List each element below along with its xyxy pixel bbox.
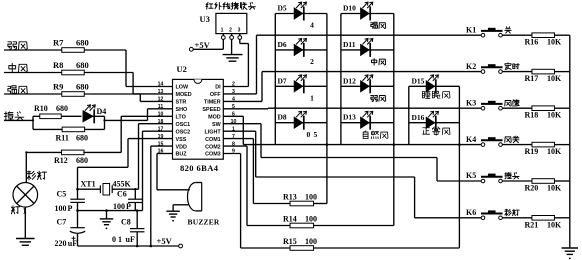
wire R20 to bus [554, 180, 569, 182]
svg-text:K3: K3 [466, 98, 476, 107]
wire +5V to U3 pin1 [193, 39, 223, 49]
wire 强风 input row [4, 93, 140, 95]
svg-text:10K: 10K [547, 147, 562, 156]
wire OFF to K1 row [223, 35, 256, 94]
svg-text:+5V: +5V [157, 236, 173, 246]
svg-text:OFF: OFF [210, 92, 221, 98]
svg-text:D5: D5 [278, 4, 287, 13]
svg-text:680: 680 [76, 60, 89, 70]
LED D16 [412, 111, 439, 129]
svg-text:680: 680 [76, 81, 89, 91]
wire MOD to K4 row [223, 116, 243, 144]
wire LIGHT to K6 [223, 131, 481, 218]
wire column3 row 3 [409, 85, 460, 87]
svg-text:5: 5 [314, 130, 318, 139]
svg-text:220: 220 [55, 239, 67, 248]
switch K3 [466, 98, 503, 110]
svg-text:R13: R13 [283, 193, 297, 202]
svg-text:P: P [126, 202, 131, 211]
svg-text:K1: K1 [466, 25, 476, 34]
svg-text:C5: C5 [57, 189, 67, 198]
wire parallel block left [32, 116, 34, 129]
wire U3 pin2 to ground [231, 39, 233, 54]
LED D4 [83, 105, 106, 123]
wire R7 to pin LOW [126, 50, 173, 87]
IC U3 IR receiver [200, 13, 247, 33]
svg-text:D8: D8 [278, 113, 287, 122]
LED D10 [343, 2, 373, 20]
svg-text:10K: 10K [547, 111, 562, 120]
wire R16 to bus [554, 34, 569, 36]
U2 pin numbers right [231, 82, 237, 155]
svg-text:K5: K5 [466, 171, 476, 180]
ground (right bus) [562, 248, 579, 259]
wire R12 to pin LTO [121, 116, 172, 152]
svg-text:10K: 10K [547, 220, 562, 229]
node mode label 正常风 [423, 127, 450, 135]
U2 pin numbers left [158, 82, 164, 155]
LED D11 [343, 39, 373, 57]
wire OSC2 routing [143, 131, 173, 210]
wire 弱风 input row [4, 49, 126, 51]
wire COM3 to R15 [223, 154, 290, 249]
svg-text:R21: R21 [525, 220, 539, 229]
svg-text:LIGHT: LIGHT [205, 129, 222, 135]
svg-text:820 6BA4: 820 6BA4 [180, 163, 219, 173]
svg-text:R9: R9 [53, 81, 63, 91]
svg-text:R16: R16 [525, 38, 539, 47]
wire K5 to R20 [502, 180, 532, 182]
LED D6 [278, 39, 307, 57]
node 中风 label [9, 63, 27, 72]
svg-text:U2: U2 [177, 64, 187, 74]
wire R9 to pin STR [140, 94, 172, 101]
switch K5 [466, 171, 503, 183]
crystal XT1 [78, 180, 139, 196]
svg-text:2: 2 [310, 57, 314, 66]
svg-text:OSC2: OSC2 [176, 129, 191, 135]
svg-text:SW: SW [212, 122, 222, 128]
svg-text:1: 1 [221, 28, 224, 34]
svg-text:R17: R17 [525, 74, 539, 83]
svg-text:COM1: COM1 [205, 137, 221, 143]
svg-text:LTO: LTO [176, 115, 186, 121]
svg-text:DI: DI [215, 85, 221, 91]
svg-text:4: 4 [310, 21, 314, 30]
node mode label 睡眠风 [422, 91, 450, 99]
wire column2 right rail [393, 14, 395, 145]
wire TIMER to K2 row [223, 72, 262, 102]
node switch label 风速 [505, 100, 519, 106]
svg-text:LOW: LOW [176, 85, 189, 91]
svg-text:680: 680 [76, 37, 89, 47]
LED D13 [343, 111, 373, 129]
node switch label 摇头 [505, 172, 519, 179]
svg-text:D16: D16 [412, 113, 425, 122]
wire buzzer to ground [173, 205, 189, 211]
capacitor C7 [55, 211, 86, 248]
ground (U3) [223, 55, 243, 62]
svg-text:13: 13 [158, 89, 164, 95]
LED D12 [343, 75, 373, 93]
wire 摇头 input row [4, 119, 33, 121]
wire column2 row 4 [341, 122, 394, 124]
svg-text:12: 12 [158, 97, 164, 103]
wire +5V rail [78, 245, 179, 247]
wire column1 left rail [274, 14, 276, 145]
wire column1 row 1 [275, 13, 327, 15]
svg-text:680: 680 [76, 133, 88, 142]
node mode label 强风 [371, 22, 386, 28]
resistor R19 [525, 142, 563, 156]
capacitor C5 [55, 189, 85, 213]
svg-text:K2: K2 [466, 62, 476, 71]
resistor R17 [525, 69, 563, 83]
svg-text:R15: R15 [283, 237, 297, 246]
svg-text:D7: D7 [278, 76, 287, 85]
wire analog ground bus [78, 210, 143, 212]
U3 pin terminals [221, 34, 241, 40]
svg-text:P: P [68, 204, 73, 213]
wire 中风 input row [4, 72, 133, 74]
node switch label 定时 [505, 63, 519, 70]
svg-text:uF: uF [68, 239, 77, 248]
wire K2 to R17 [502, 71, 532, 73]
U2 part number label [180, 163, 219, 173]
buzzer BUZZER [188, 183, 220, 227]
wire K3 to R18 [502, 107, 532, 109]
svg-text:C6: C6 [117, 189, 127, 198]
svg-text:XT1: XT1 [81, 180, 96, 189]
node 彩灯 label [27, 171, 47, 180]
wire column2 row 2 [341, 49, 394, 51]
wire column2 row 1 [341, 13, 394, 15]
wire K4 row bus [243, 144, 481, 146]
wire column3 left rail [408, 86, 410, 144]
svg-text:R18: R18 [525, 111, 539, 120]
svg-text:14: 14 [158, 82, 164, 88]
node timer value 2 [310, 57, 314, 66]
node mode label 弱风 [371, 96, 386, 102]
op-amp U2 remote decoder IC [173, 64, 224, 159]
svg-text:MOED: MOED [176, 92, 192, 98]
switch K4 [466, 135, 503, 147]
svg-text:VSS: VSS [176, 137, 187, 143]
wire K6 to R21 [502, 217, 532, 219]
LED D5 [278, 2, 307, 20]
svg-text:R19: R19 [525, 147, 539, 156]
node 摇头 label [4, 112, 23, 121]
wire parallel block right [91, 116, 104, 129]
wire OSC1 routing [139, 124, 173, 190]
wire 摇头 to pin SHO [105, 109, 173, 121]
svg-text:1: 1 [310, 94, 314, 103]
wire column2 row 3 [341, 85, 394, 87]
svg-text:VDD: VDD [176, 144, 187, 150]
svg-text:680: 680 [56, 104, 68, 113]
resistor R20 [525, 179, 563, 193]
svg-text:D11: D11 [343, 40, 356, 49]
wire R14 to column2 [314, 145, 394, 226]
svg-text:K6: K6 [466, 208, 476, 217]
node 红外线接收头 label [206, 2, 255, 9]
wire R19 to bus [554, 144, 569, 146]
wire R15 to column3 [314, 145, 460, 248]
node timer value 4 [310, 21, 314, 30]
resistor R13 [283, 193, 317, 206]
svg-text:COM3: COM3 [205, 152, 221, 158]
power +5V terminal (U3) [189, 40, 210, 51]
wire R8 to pin MOED [133, 73, 172, 94]
wire column2 left rail [340, 14, 342, 145]
svg-text:SPEED: SPEED [202, 107, 220, 113]
svg-text:D4: D4 [97, 107, 107, 116]
svg-text:100: 100 [305, 193, 317, 202]
svg-text:680: 680 [76, 156, 88, 165]
svg-text:D10: D10 [343, 4, 356, 13]
svg-text:10K: 10K [547, 74, 562, 83]
ground (buzzer) [166, 211, 180, 221]
wire COM1 to R13 [223, 139, 290, 204]
svg-text:0 1: 0 1 [112, 235, 122, 244]
svg-text:COM2: COM2 [205, 144, 221, 150]
svg-text:BUZZER: BUZZER [188, 218, 220, 227]
node switch label 关 [505, 27, 511, 33]
resistor R7 [53, 37, 89, 52]
svg-text:11: 11 [158, 104, 164, 110]
svg-text:10: 10 [158, 112, 164, 118]
LED D7 [278, 75, 307, 93]
wire VSS routing [78, 139, 173, 190]
svg-text:STR: STR [176, 100, 187, 106]
svg-text:455K: 455K [113, 180, 132, 189]
wire column1 row 2 [275, 49, 327, 51]
wire VDD to +5V rail [151, 146, 173, 246]
svg-text:D15: D15 [412, 77, 425, 86]
wire SW to K5 [223, 124, 481, 181]
svg-text:10K: 10K [547, 38, 562, 47]
svg-text:3: 3 [238, 28, 241, 34]
svg-text:BUZ: BUZ [176, 152, 188, 158]
svg-text:OSC1: OSC1 [176, 122, 191, 128]
wire lamp to ground [24, 207, 26, 238]
wire column3 right rail [458, 86, 460, 144]
node switch label 风类 [505, 136, 519, 143]
node 弱风 label [8, 42, 27, 50]
svg-text:2: 2 [229, 28, 232, 34]
resistor R14 [283, 215, 317, 228]
capacitor C6 [113, 188, 143, 211]
svg-text:R7: R7 [53, 37, 64, 47]
resistor R9 [53, 81, 89, 96]
svg-text:100: 100 [55, 204, 67, 213]
wire R18 to bus [554, 107, 569, 109]
ground (lamp) [16, 239, 35, 246]
resistor R8 [53, 60, 89, 75]
resistor R15 [283, 237, 317, 250]
svg-text:R12: R12 [54, 156, 68, 165]
svg-text:R10: R10 [34, 104, 48, 113]
wire K1 to R16 [502, 34, 532, 36]
wire column1 row 4 [275, 122, 327, 124]
lamp 灯1 [11, 183, 37, 216]
svg-text:R20: R20 [525, 184, 539, 193]
resistor R16 [525, 33, 563, 47]
node mode label 中风 [372, 58, 386, 65]
resistor R21 [525, 216, 563, 230]
U2 pin name labels [176, 85, 222, 158]
svg-text:D13: D13 [343, 113, 356, 122]
wire K1 row bus [257, 34, 482, 36]
wire BUZ to buzzer [157, 154, 190, 190]
switch K1 [466, 25, 503, 37]
svg-text:C7: C7 [57, 217, 67, 226]
node switch label 彩灯 [505, 209, 519, 216]
wire ground stem (caps) [106, 211, 108, 219]
svg-text:uF: uF [126, 235, 135, 244]
svg-text:C8: C8 [121, 217, 131, 226]
wire R13 to column1 [314, 145, 327, 204]
wire K2 row bus [262, 71, 481, 73]
switch K2 [466, 62, 503, 74]
svg-text:K4: K4 [466, 135, 476, 144]
svg-text:SHO: SHO [176, 107, 188, 113]
svg-text:100: 100 [305, 215, 317, 224]
wire column1 right rail [326, 14, 328, 145]
resistor R10 [33, 104, 82, 119]
switch K6 [466, 208, 503, 220]
resistor R18 [525, 106, 563, 120]
node 强风 label [8, 86, 27, 94]
capacitor C8 [112, 211, 144, 246]
resistor R11 [33, 127, 105, 142]
wire R21 to bus [554, 217, 569, 219]
LED D8 [278, 111, 307, 129]
wire K4 to R19 [502, 144, 532, 146]
svg-text:U3: U3 [200, 14, 210, 24]
node mode label 自然风 [363, 131, 388, 139]
svg-text:100: 100 [305, 237, 317, 246]
wire SPEED to K3 row [223, 107, 268, 110]
LED D15 [412, 75, 439, 93]
wire R12 to lamp [25, 152, 27, 182]
node timer value 1 [310, 94, 314, 103]
svg-text:R8: R8 [53, 60, 63, 70]
svg-text:TIMER: TIMER [204, 100, 221, 106]
power +5V terminal (rail) [157, 236, 183, 248]
svg-text:100: 100 [113, 202, 125, 211]
svg-text:R11: R11 [56, 133, 69, 142]
wire R17 to bus [554, 71, 569, 73]
svg-text:D12: D12 [343, 76, 356, 85]
ground (caps) [100, 219, 114, 229]
svg-text:MOD: MOD [208, 115, 221, 121]
svg-text:10K: 10K [547, 184, 562, 193]
wire U3 pin3 to U2 DI [223, 39, 248, 86]
svg-text:D6: D6 [278, 40, 287, 49]
resistor R12 [26, 150, 121, 165]
wire COM2 to R14 [223, 146, 290, 225]
wire right ground bus [569, 35, 571, 247]
svg-text:R14: R14 [283, 215, 297, 224]
svg-text:0: 0 [307, 130, 311, 139]
wire column1 row 3 [275, 85, 327, 87]
node timer value 0.5 [307, 130, 318, 139]
wire column3 row 4 [409, 122, 460, 124]
wire K3 row bus [268, 107, 481, 109]
